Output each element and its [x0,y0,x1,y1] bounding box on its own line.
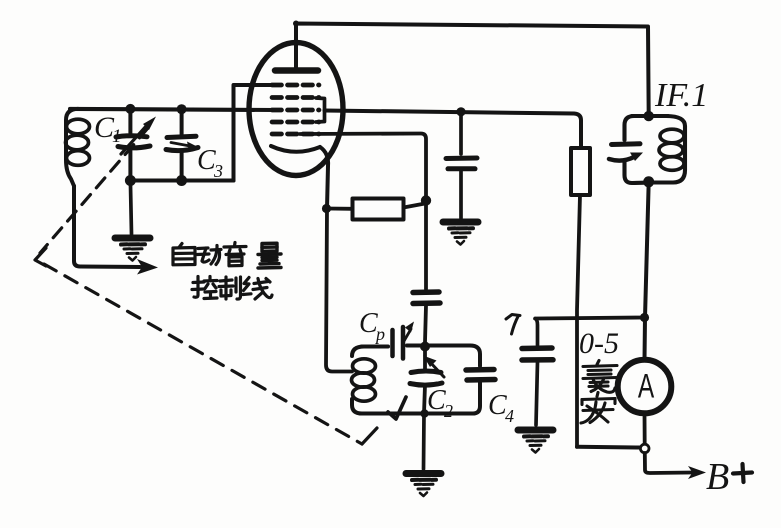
wire: meter to B+ node [643,414,647,444]
svg-text:A: A [638,368,655,406]
wire: antenna tank top rail [70,109,276,110]
capacitor C7 (AVC bypass) [535,319,538,346]
label 控 hand-drawn [192,277,217,299]
label 动 hand-drawn [197,246,221,265]
grid 5 (dashed row) [272,132,319,137]
op-amp/tube envelope U1 (pentagrid converter) [249,43,343,176]
wire: B+ rail bottom [577,445,640,450]
node: B+ open junction [640,444,649,453]
wire: antenna tank bottom rail [130,178,233,182]
wire: grid1 lead to AVC rail [234,85,281,181]
capacitor C2 (variable) [423,347,427,370]
node: oscillator tank top junction [420,342,430,352]
wire: AVC line with arrow [74,186,140,267]
label 安 (ampere) hand-drawn [581,393,615,424]
meter A (0-5 mA) [618,360,672,414]
grid 1 (dashed row) [272,83,319,88]
node: meter branch junction [640,313,649,322]
capacitor C4 [470,346,480,367]
node: tank bottom junction [420,409,428,417]
label 7 of bypass cap [506,315,520,335]
resistor R2 (screen dropper) [571,148,590,195]
capacitor C6 (bypass) [459,112,463,154]
node: cathode junction [322,204,331,213]
svg-text:B: B [706,456,729,498]
svg-text:1: 1 [112,126,122,147]
wire: C1 bottom to ground [130,181,131,235]
svg-text:3: 3 [213,161,223,181]
wire: tank top-left corner [352,347,364,357]
gang dashed line to C2 [44,264,362,444]
wire: plate top wire from tube to IF.1 [296,24,649,117]
ground under C2 [406,474,441,497]
node: junction at bypass cap branch [456,107,465,116]
wire: C7 top rail to meter branch [536,318,645,319]
gang arrow near C2 [388,397,406,419]
wire: IF.1 bottom to meter [645,182,649,360]
label 音 hand-drawn [224,243,246,266]
node: R1 right junction blob [421,195,431,205]
wire: main right wire from screen bracket [325,111,582,149]
wire: cathode lead down [320,147,328,209]
svg-text:p: p [374,324,385,344]
node: IF.1 top junction [644,111,654,121]
inductor L1 antenna coil [66,109,78,186]
arrow of C3 [171,143,190,147]
ground under C1 [115,238,150,261]
label 线 hand-drawn [243,278,272,300]
ground under C6 [443,222,478,245]
transformer IF.1 [632,114,668,118]
wire: cathode line down to oscillator coil tap [326,209,352,372]
arrow of C1 [121,124,148,154]
capacitor C5 (coupling) [413,289,439,295]
wire: R2 down to B+ rail [577,195,580,447]
svg-text:IF.1: IF.1 [654,77,708,114]
label 自 hand-drawn [173,244,195,265]
label 毫 (milli) hand-drawn [583,361,617,393]
resistor R1 (oscillator grid leak) [327,207,353,211]
gang dashed line from C1 down-left [40,128,148,253]
node: C1 top junction [125,104,135,114]
arrow of Cp [404,329,411,341]
capacitor C1 (variable) [128,109,132,133]
node: IF.1 bottom junction [643,176,654,187]
label 量 hand-drawn [258,243,281,268]
wire: tank bottom-left corner [352,399,362,414]
wire: to B+ arrow [645,453,692,473]
plate bar of tube [275,67,318,74]
grid 3 (dashed row) [272,108,319,113]
arrow of C2 [429,361,444,377]
screen grid bracket tying grids 2 and 4 [316,98,325,122]
svg-text:2: 2 [444,401,453,421]
node: C3 bottom junction [176,175,187,186]
ground under C7 [518,430,553,453]
capacitor Cp (series padder, vertical plates) [390,330,395,356]
wire: tank bottom rail [360,411,474,415]
svg-text:4: 4 [505,406,514,426]
inductor L2 oscillator coil [353,359,376,373]
cathode of tube [271,146,320,152]
label 制 hand-drawn [219,277,241,299]
wire: grid5 lead to oscillator branch [300,134,426,290]
grid 2 (dashed row) [272,95,319,100]
grid 4 (dashed row) [272,120,319,125]
svg-text:0-5: 0-5 [579,327,619,360]
node: C1 bottom junction [125,175,136,186]
wire: oscillator tank top rail [362,346,470,347]
capacitor C3 (trimmer) [180,109,184,134]
wire: C2 to ground [422,414,426,470]
gang line vertex [35,248,46,266]
node: C3 top junction [177,104,187,114]
node: top-left corner dot [293,21,299,27]
